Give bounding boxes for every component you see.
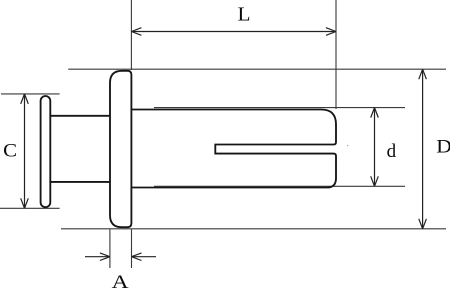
svg-text:D: D <box>436 137 450 158</box>
dimension L line with arrows <box>131 28 336 36</box>
dimension L extension line left (flange right face) <box>130 0 132 70</box>
dimension d line with arrows <box>371 108 379 187</box>
dimension C extension line top <box>1 93 60 95</box>
shank between washer and flange <box>50 116 110 182</box>
dimension d extension line top <box>154 107 405 109</box>
svg-text:C: C <box>3 141 17 162</box>
svg-text:A: A <box>112 272 129 288</box>
faint speck artifact <box>347 145 348 146</box>
flange head outline <box>110 71 131 227</box>
dimension C extension line bottom <box>0 207 60 209</box>
dimension A line with outside arrows <box>85 253 156 261</box>
svg-text:L: L <box>238 4 251 26</box>
dimension d extension line bottom <box>154 185 405 187</box>
washer cap outline <box>41 96 51 207</box>
dimension D extension line bottom <box>61 228 446 230</box>
dimension C line with arrows <box>21 94 29 208</box>
dimension A extension line left <box>109 229 111 268</box>
dimension D line with arrows <box>419 69 427 229</box>
dimension L extension line right (body end face) <box>335 0 337 109</box>
body outline with slot <box>131 110 336 188</box>
svg-text:d: d <box>387 141 397 162</box>
dimension D extension line top <box>68 68 446 70</box>
dimension A extension line right <box>131 229 133 268</box>
